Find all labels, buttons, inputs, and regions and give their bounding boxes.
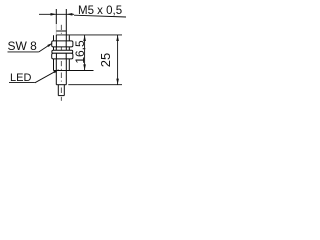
- SW 8 leader arrowhead: [47, 43, 53, 47]
- centerline dot above thread: [60, 33, 62, 34]
- arrowhead top-left: [51, 13, 57, 16]
- svg-text:M5 x 0,5: M5 x 0,5: [78, 5, 122, 17]
- LED leader line: [35, 71, 56, 83]
- arrowhead 16,5 down: [83, 64, 86, 70]
- centerline dash below nut: [60, 61, 62, 66]
- arrowhead 25 down: [116, 79, 119, 85]
- thread crest right: [68, 35, 70, 70]
- centerline dot lower barrel: [60, 81, 62, 82]
- extension line left (tip left edge): [55, 9, 57, 24]
- tip shoulder line: [56, 30, 66, 32]
- centerline dot mid barrel: [60, 69, 62, 70]
- nut 1 facet left: [55, 41, 57, 47]
- extension line left faint continuation: [55, 24, 57, 35]
- dimension line 16,5: [84, 35, 86, 71]
- extension line housing bottom (25 bottom): [68, 84, 122, 86]
- arrowhead top-right: [66, 13, 72, 16]
- dimension line M5 thread (top): [39, 13, 74, 15]
- thread start line + top extension line (16,5 / 25): [56, 34, 122, 36]
- svg-text:SW 8: SW 8: [8, 39, 38, 53]
- nut 2 facet right: [65, 53, 67, 59]
- centerline dash connector: [60, 88, 62, 94]
- nut 1 (SW 8): [52, 41, 73, 47]
- arrowhead 16,5 up: [83, 35, 86, 41]
- extension line thread end (16,5 bottom): [68, 70, 93, 72]
- LED leader arrowhead: [54, 69, 60, 73]
- centerline dash barrel: [60, 73, 62, 79]
- svg-text:LED: LED: [10, 72, 31, 84]
- barrel root right: [65, 35, 67, 85]
- svg-text:16,5: 16,5: [73, 40, 87, 64]
- arrowhead 25 up: [116, 35, 119, 41]
- LED leader underline: [9, 82, 35, 84]
- centerline dash thread gap: [60, 47, 62, 50]
- svg-text:25: 25: [98, 53, 113, 67]
- thread end line: [54, 70, 70, 72]
- centerline dash tip: [60, 25, 62, 30]
- extension line right / tip right edge: [65, 9, 67, 35]
- housing bottom line: [56, 84, 66, 86]
- nut 2: [52, 53, 73, 59]
- leader underline M5: [74, 15, 126, 17]
- SW 8 leader underline: [8, 51, 39, 53]
- connector body left: [57, 85, 59, 96]
- centerline dash below connector: [60, 97, 62, 101]
- connector bottom line: [58, 95, 64, 97]
- nut 1 facet right: [65, 41, 67, 47]
- thread crest left: [53, 35, 55, 70]
- SW 8 leader line: [39, 45, 50, 52]
- barrel root left: [55, 35, 57, 85]
- washer: [52, 50, 73, 53]
- nut 2 facet left: [55, 53, 57, 59]
- dimension line 25: [117, 35, 119, 85]
- connector body right: [63, 85, 65, 96]
